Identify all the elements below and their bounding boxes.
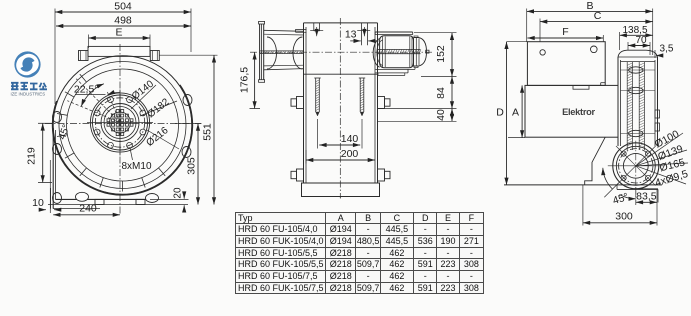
svg-text:498: 498: [114, 15, 132, 27]
svg-text:504: 504: [114, 1, 132, 13]
svg-text:3,5: 3,5: [660, 44, 674, 55]
svg-text:E: E: [115, 27, 122, 39]
svg-text:176,5: 176,5: [239, 67, 251, 93]
svg-text:551: 551: [202, 123, 214, 141]
svg-text:F: F: [562, 26, 568, 38]
svg-text:Ø140: Ø140: [130, 78, 156, 102]
svg-text:Ø182: Ø182: [145, 96, 171, 120]
svg-text:84: 84: [435, 87, 447, 99]
svg-text:Elektror: Elektror: [562, 107, 595, 117]
svg-text:22,5°: 22,5°: [74, 84, 99, 96]
svg-text:A: A: [512, 107, 519, 119]
svg-text:40: 40: [435, 109, 447, 121]
svg-text:20: 20: [173, 187, 184, 199]
svg-text:219: 219: [26, 147, 38, 165]
svg-text:13: 13: [345, 29, 357, 41]
svg-text:200: 200: [341, 148, 359, 160]
svg-text:240: 240: [79, 203, 97, 215]
svg-text:140: 140: [341, 133, 359, 145]
svg-text:300: 300: [615, 211, 633, 223]
svg-text:C: C: [594, 10, 602, 22]
svg-text:152: 152: [435, 45, 447, 63]
svg-text:83,5: 83,5: [636, 190, 657, 202]
svg-text:D: D: [496, 107, 504, 119]
svg-text:70: 70: [635, 35, 647, 46]
svg-text:45°: 45°: [611, 191, 630, 207]
svg-text:8xM10: 8xM10: [121, 161, 151, 172]
svg-text:B: B: [586, 0, 593, 12]
svg-text:10: 10: [32, 197, 44, 209]
svg-text:305: 305: [186, 157, 198, 175]
svg-text:Ø216: Ø216: [144, 125, 170, 149]
